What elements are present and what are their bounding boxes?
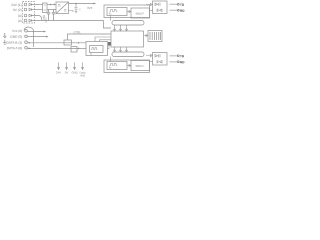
stub down [90,53,92,56]
waveform [110,63,118,65]
wire 0V to filter [32,9,43,11]
label Data [80,72,86,74]
opto RD top [157,9,162,12]
diode D2 [29,8,32,11]
arrow mark A [29,47,31,49]
wire DATA A [28,47,87,49]
wire GND arrow [28,36,48,38]
UART box bottom [107,62,127,70]
junction dot [78,48,80,50]
label TD [180,55,184,57]
label Vcc (6) [12,30,22,33]
waveform [91,48,98,50]
opto TD top [155,3,160,6]
label 24V (1) [11,4,21,7]
label C [79,9,81,11]
top bus capsule [112,21,144,26]
waveform [110,9,118,11]
label TD [180,4,184,6]
terminal 1 [24,3,27,6]
arrow to driver bottom [146,55,153,57]
label (3) [18,15,22,18]
shield bond line [33,31,35,47]
label RD [180,61,184,63]
wire Vcc arrow [28,31,45,33]
label 0V [65,72,68,74]
CTRL source box [64,40,72,45]
terminal 5 [25,35,28,38]
crystal [108,42,111,46]
bus pin [120,25,122,31]
label RD [180,10,184,12]
wire 24V to filter [32,4,43,6]
terminal TD bottom [177,55,179,57]
rx line to uC [95,37,111,42]
terminal 4 [24,19,27,22]
UART box top [107,8,127,16]
channel box bottom [104,60,150,73]
diode D1 [29,3,32,6]
diode D4 [29,19,32,22]
bus pin [114,25,116,31]
small box caps [71,47,77,53]
tiny arrow [110,67,112,69]
DC/DC converter U1 [56,2,69,14]
stub to bus [110,16,112,21]
arrow 3V3 supply [93,3,95,5]
label 24V [56,72,61,74]
tx line to uC [100,40,112,42]
ground [75,12,78,13]
dashed RD top [170,9,178,11]
line rd bottom [150,61,153,63]
channel box top [104,5,150,18]
wire filter to converter (24V) [47,4,54,6]
filter choke box [43,3,48,13]
baud box top [131,8,150,18]
driver box bottom [153,53,168,66]
arrow uart to baud [127,11,131,13]
driver box top [153,1,168,14]
tiny arrow [110,13,112,15]
baud box bottom [131,61,150,71]
transceiver inner box [90,46,104,53]
opto TD bottom [155,54,160,57]
opto RD bottom [157,60,162,63]
shield symbol [3,33,7,44]
junction dot [78,42,80,44]
diode D3 [29,14,32,17]
link up to uC [108,45,110,49]
label 0V (2) [13,9,21,12]
connector arrow [144,35,149,37]
capacitor C3 [75,4,78,12]
line rd top [150,10,153,12]
jumper arc [24,27,34,31]
wire terminal3 [32,16,43,21]
bus pin [126,47,128,52]
label 3V3 [87,7,92,9]
terminal D3 [25,41,28,44]
arrow mark B [29,42,31,44]
terminal 2 [24,8,27,11]
terminal RD bottom [177,61,179,63]
wire converter output [69,3,96,5]
terminal 8 [25,47,28,50]
arrow uart to baud [127,65,131,67]
terminal TD top [177,3,179,5]
wire DATA B [28,42,87,44]
ground PE [43,16,46,21]
wire filter to converter (0V) [47,9,56,11]
wire PE down to uC rail [104,21,112,29]
bus pin [114,47,116,52]
bottom bus capsule [112,52,144,57]
label CTRL [74,31,81,33]
dashed input-protection box [23,2,35,24]
microcontroller U3 [111,31,144,47]
dashed TD bottom [170,55,178,57]
converter minus stub [69,11,74,13]
dashed RD bottom [170,61,178,63]
label DATA A (8) [7,47,22,50]
capacitor CY2 [52,10,55,21]
transceiver box U2 [86,42,108,56]
label GND (5) [10,35,22,38]
stub to bus [110,57,112,62]
arrow to driver top [146,4,153,6]
wire terminal4 PE line [32,20,104,22]
label GND [72,72,78,74]
dashed TD top [170,3,178,5]
bus pin [126,25,128,31]
field arrows [58,63,60,70]
terminal 3 [24,14,27,17]
backplane connector [148,31,162,42]
terminal RD top [177,9,179,11]
bus pin [120,47,122,52]
junction dot [75,3,77,5]
label DATA B (3) [7,41,22,44]
junction dot [50,4,52,6]
label (4) [18,20,22,23]
terminal 6 [25,30,28,33]
junction cross [45,19,47,23]
capacitor CY1 [47,10,50,21]
CTRL wire [68,34,112,40]
